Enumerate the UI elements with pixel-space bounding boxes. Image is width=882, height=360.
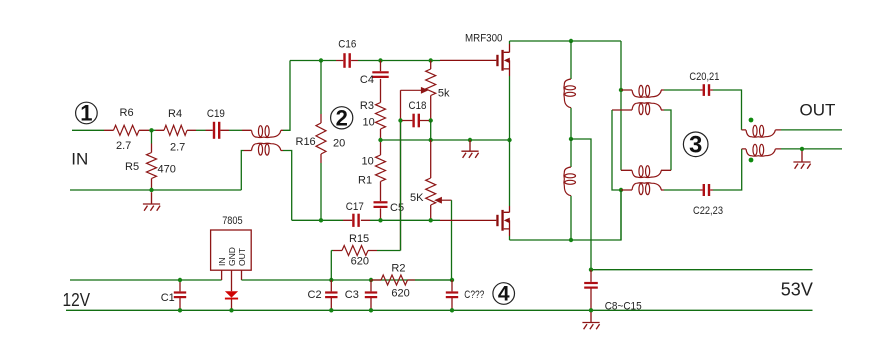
ground 53V decoupling [582, 312, 599, 329]
junction C18 right [429, 118, 433, 122]
lower MOSFET gate lead [440, 219, 496, 221]
resistor R4 [164, 125, 187, 135]
circled number 2 [331, 105, 353, 130]
wire R5 bottom link [151, 188, 153, 191]
resistor R2 leads [371, 279, 415, 281]
wire upper drain up [509, 41, 511, 44]
circled number 4 [493, 283, 515, 306]
wire node R6-R4-R5 [149, 129, 156, 131]
junction C4 top [378, 58, 382, 62]
wire T1 secondary left down to rail [241, 151, 243, 191]
svg-text:5K: 5K [410, 192, 424, 204]
resistor R3 [376, 103, 386, 130]
diode D1 bottom lead [231, 300, 233, 311]
junction C8-C15 bottom [589, 308, 593, 312]
inductor balun W4 bottom winding (mirrored) [632, 183, 661, 195]
choke L1 leads [570, 41, 572, 139]
inductor T2 upper winding [746, 125, 775, 137]
wire 5V rail [242, 279, 453, 281]
wire W1 to C20,21 [664, 89, 700, 91]
junction R16 top [319, 58, 323, 62]
resistor R5 [147, 153, 157, 179]
resistor R15 wires [331, 251, 400, 281]
junction choke center node [569, 137, 573, 141]
svg-text:4: 4 [498, 283, 510, 306]
wire R16 bottom link [320, 163, 322, 220]
svg-text:R3: R3 [360, 100, 374, 112]
wire C19 to T1 primary [229, 129, 242, 131]
capacitor C18 leads [402, 120, 429, 122]
wire lower drain row [510, 190, 622, 240]
resistor R3 bottom lead [380, 129, 382, 140]
junction C2 top [329, 278, 333, 282]
junction ground mid row [468, 138, 472, 142]
junction R16 bottom [319, 218, 323, 222]
junction balun top node [619, 88, 623, 92]
capacitor C17 [353, 214, 358, 227]
resistor R15 [342, 246, 368, 256]
junction R2 right / C??? top [450, 278, 454, 282]
wire C22,23 to output transformer [713, 149, 742, 190]
transistor Q2 lower MRF300 [496, 206, 510, 236]
svg-text:7805: 7805 [222, 215, 243, 227]
wire loop left vertical [612, 110, 621, 190]
7805 IN pin [221, 270, 223, 280]
junction C3 bottom [369, 308, 373, 312]
inductor T1 secondary winding [252, 143, 281, 155]
svg-text:C16: C16 [338, 39, 356, 51]
inductor L1 choke upper [564, 79, 576, 108]
capacitor C3 leads [370, 280, 372, 310]
svg-text:R5: R5 [125, 161, 139, 173]
balun loop bottom winding leads [621, 169, 671, 171]
junction pot top [429, 58, 433, 62]
wire C17 to gate [370, 219, 440, 221]
junction C18 left [398, 118, 402, 122]
wire C4 to R3 [380, 79, 382, 103]
capacitor C8~C15 [584, 283, 598, 288]
svg-text:R16: R16 [296, 136, 316, 148]
junction R5 bottom / ground [149, 188, 153, 192]
wire upper source down to mid row [509, 76, 511, 140]
capacitor C??? [446, 293, 458, 298]
svg-text:470: 470 [158, 164, 176, 176]
svg-text:20: 20 [333, 138, 345, 150]
svg-text:GND: GND [227, 247, 237, 266]
svg-text:C18: C18 [409, 100, 427, 112]
capacitor C1 leads [179, 280, 181, 310]
junction C2 bottom [329, 308, 333, 312]
junction C??? bottom [450, 308, 454, 312]
choke L2 leads [570, 139, 572, 240]
junction sources mid row [507, 138, 511, 142]
junction pot bottom row [429, 218, 433, 222]
inductor balun W2 loop top (mirrored) [632, 103, 661, 115]
circled number 3 [683, 132, 708, 159]
capacitor C3 [365, 293, 377, 298]
junction C3 top [369, 278, 373, 282]
pot 5K top lead [430, 140, 432, 178]
svg-text:R1: R1 [358, 175, 372, 187]
svg-text:C???: C??? [464, 289, 484, 301]
resistor R6 [114, 125, 140, 135]
wire top row to C16 [290, 60, 336, 62]
pot 5k bottom lead [430, 96, 432, 121]
capacitor C20,21 [704, 84, 709, 96]
resistor R15 leads [333, 250, 377, 252]
wire R1 to C5 [380, 182, 382, 202]
capacitor C22,23 leads [700, 189, 713, 191]
svg-text:C22,23: C22,23 [693, 205, 723, 217]
svg-text:R2: R2 [391, 263, 405, 275]
inductor balun W1 top winding [632, 85, 661, 97]
svg-text:IN: IN [71, 150, 88, 169]
wire C20,21 to output transformer [713, 90, 742, 130]
junction output ground [800, 147, 804, 151]
wire C17 row left [292, 219, 343, 221]
capacitor C2 [325, 293, 337, 298]
capacitor C19 [214, 122, 219, 139]
resistor R5 leads [151, 144, 153, 188]
balun loop top winding leads [612, 109, 664, 111]
wire T1 primary right to C16 row [283, 61, 290, 131]
svg-text:53V: 53V [781, 280, 813, 300]
inductor T1 primary winding [252, 126, 281, 138]
junction balun bottom node [619, 188, 623, 192]
svg-text:OUT: OUT [800, 100, 836, 119]
svg-text:C1: C1 [161, 292, 175, 304]
capacitor C2 leads [330, 280, 332, 310]
ground input [143, 192, 160, 211]
svg-text:2: 2 [336, 105, 348, 130]
potentiometer 5K [426, 178, 436, 205]
inductor balun W3 loop bottom [632, 166, 661, 178]
T1 secondary leads [244, 150, 284, 152]
ground mid [461, 140, 478, 158]
svg-text:C3: C3 [345, 289, 359, 301]
wire lower bottom stub down [509, 236, 511, 240]
svg-text:C20,21: C20,21 [689, 71, 719, 83]
wire OUT upper [781, 129, 842, 131]
wire C16 to C4/pot [358, 60, 440, 62]
wire 5K wiper down to C??? node [451, 200, 453, 280]
svg-text:5k: 5k [438, 88, 450, 100]
svg-text:C19: C19 [207, 108, 225, 120]
svg-text:620: 620 [391, 288, 409, 300]
svg-text:10: 10 [363, 117, 375, 129]
wire R2 right [415, 279, 452, 281]
pot top to mid row link [430, 121, 432, 141]
capacitor C20,21 leads [700, 89, 713, 91]
junction C1 top [178, 278, 182, 282]
capacitor C16 leads [336, 60, 358, 62]
svg-text:620: 620 [351, 256, 369, 268]
junction choke bottom [569, 238, 573, 242]
wire lower top stub up to mid row [509, 140, 511, 206]
svg-text:1: 1 [80, 101, 92, 126]
svg-text:OUT: OUT [237, 248, 247, 266]
transistor Q1 upper MRF300 [496, 44, 510, 76]
capacitor C22,23 [704, 184, 709, 196]
capacitor C16 [345, 53, 350, 68]
capacitor C8~C15 leads [590, 270, 592, 311]
T2 lower winding leads [742, 148, 781, 150]
wire R16 top link [320, 61, 322, 115]
capacitor C??? leads [451, 280, 453, 310]
junction pot mid row [429, 138, 433, 142]
pot 5K bottom lead [430, 205, 432, 220]
T1 primary leads [242, 129, 283, 131]
svg-text:C5: C5 [390, 202, 404, 214]
svg-text:12V: 12V [63, 290, 91, 310]
wire input line left [72, 129, 104, 131]
upper MOSFET gate lead [440, 59, 496, 61]
diode D1 [225, 291, 238, 299]
wire 12V rail [70, 279, 222, 281]
svg-text:C17: C17 [346, 201, 364, 213]
junction C1 bottom [178, 308, 182, 312]
wire input bottom rail [70, 189, 241, 191]
7805 GND pin [231, 270, 233, 291]
svg-text:R4: R4 [168, 108, 182, 120]
svg-text:R6: R6 [120, 107, 134, 119]
resistor R16 top lead [320, 114, 322, 123]
junction choke top [569, 39, 573, 43]
wire OUT lower [781, 148, 842, 150]
wire balun left vertical [620, 41, 622, 170]
capacitor C19 leads [206, 129, 230, 131]
resistor R16 bottom lead [320, 154, 322, 163]
regulator U1 7805 box [211, 230, 252, 270]
potentiometer 5k [426, 69, 436, 96]
capacitor C4 top lead [380, 61, 382, 72]
wire ground rail bottom [66, 309, 813, 311]
resistor R4 leads [156, 129, 197, 131]
svg-text:2.7: 2.7 [170, 142, 185, 154]
resistor R2 [381, 275, 408, 285]
svg-text:10: 10 [362, 156, 374, 168]
wire 53V rail [591, 269, 813, 271]
svg-text:C2: C2 [308, 289, 322, 301]
pot 5K wiper arrow [434, 197, 451, 204]
pot 5k top lead [430, 61, 432, 70]
svg-text:MRF300: MRF300 [465, 33, 503, 45]
inductor T2 lower winding [746, 144, 775, 156]
wire mid row (source bus) [381, 139, 510, 141]
circled number 1 [76, 101, 98, 126]
T2 upper winding leads [742, 129, 782, 131]
balun winding W4 leads [621, 189, 664, 191]
wire balun bottom vertical [620, 190, 622, 240]
wire R4 to C19 [196, 129, 206, 131]
svg-text:R15: R15 [349, 233, 369, 245]
wire T1 secondary right down to C17 row [283, 151, 292, 221]
wire upper drain row [510, 40, 622, 42]
wire R5 top link [151, 130, 153, 143]
svg-text:IN: IN [217, 258, 227, 267]
wire wiper green part [400, 122, 402, 251]
svg-text:C8~C15: C8~C15 [605, 300, 642, 312]
capacitor C4 [372, 72, 388, 77]
capacitor C5 [374, 202, 388, 207]
junction C8-C15 top [589, 268, 593, 272]
balun winding W1 leads [621, 89, 664, 91]
resistor R6 leads [104, 129, 149, 131]
wire W4 to C22,23 [664, 189, 700, 191]
ground output [793, 151, 810, 169]
pot 5k wiper arrow [401, 87, 429, 94]
svg-text:C4: C4 [360, 74, 374, 86]
svg-text:2.7: 2.7 [116, 140, 131, 152]
junction diode bottom [229, 308, 233, 312]
capacitor C1 [174, 293, 186, 298]
junction C5 bottom row [378, 218, 382, 222]
wire loop right vertical [664, 110, 671, 170]
phasing dot lower [749, 158, 754, 163]
inductor L2 choke lower [564, 167, 576, 196]
phasing dot upper [749, 118, 754, 123]
resistor R1 [376, 155, 386, 182]
wire wiper down to C18/R15 [400, 90, 402, 250]
capacitor C18 [414, 114, 419, 128]
capacitor C17 leads [343, 219, 370, 221]
resistor R1 top lead [380, 140, 382, 155]
junction R3/R1 mid [378, 138, 382, 142]
svg-text:3: 3 [689, 132, 702, 159]
wire choke center to supply drop [571, 139, 591, 270]
resistor R16 [316, 123, 326, 154]
7805 OUT pin [241, 270, 243, 280]
capacitor C5 bottom lead [380, 208, 382, 220]
junction R6/R4/R5 [149, 128, 153, 132]
